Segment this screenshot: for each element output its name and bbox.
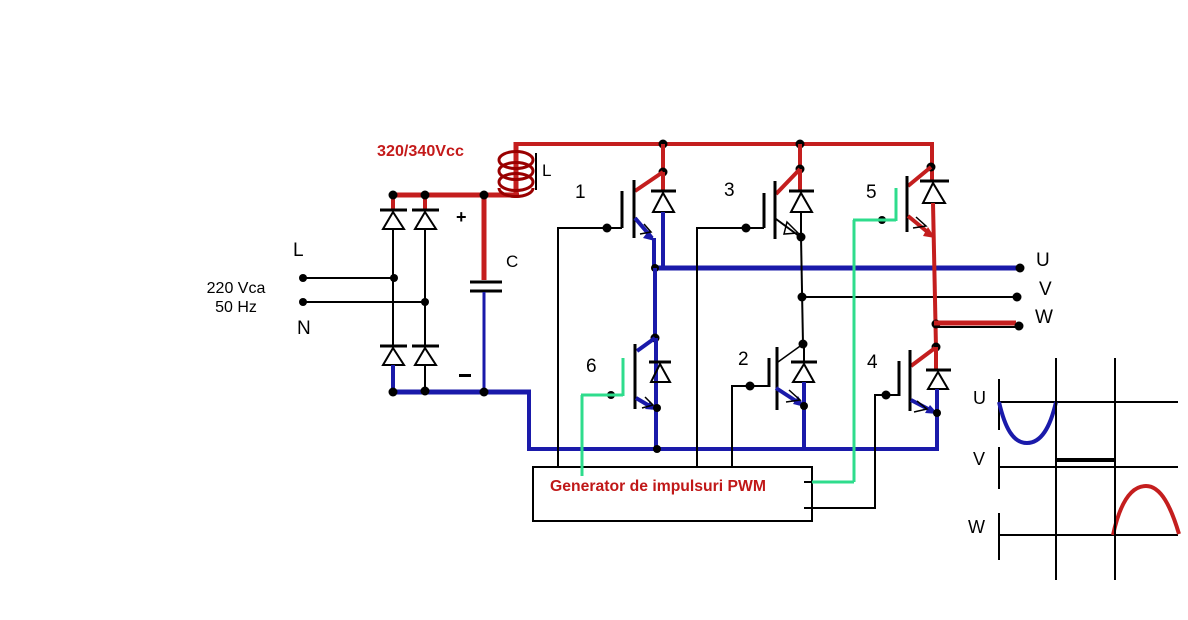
transistor Q2 gate bar	[768, 358, 771, 387]
wire Q4 gate elbow to PWM box (black)	[804, 507, 876, 509]
waveform U negative half-sine (blue)	[999, 402, 1056, 443]
svg-text:L: L	[542, 161, 551, 180]
svg-text:1: 1	[575, 182, 586, 203]
wire capacitor to - rail (blue)	[483, 292, 486, 394]
arrow Q2 emitter (blue)	[793, 396, 805, 407]
axis W waveform horizontal	[998, 534, 1178, 536]
wire Q6 gate lead (green)	[581, 394, 623, 397]
wire T1 collector diagonal (red)	[635, 172, 663, 191]
arrow Q5 emitter original (black open)	[913, 217, 926, 228]
wire - rail elbow down (blue)	[527, 390, 531, 451]
wire U bus down to Q6 (blue)	[653, 268, 657, 338]
wire bridge right leg	[424, 229, 426, 346]
axis W waveform vertical	[998, 513, 1000, 560]
wire D8 to - bus (blue)	[802, 382, 806, 450]
svg-text:5: 5	[866, 182, 877, 203]
diode D9 (freewheel of Q5)	[920, 181, 949, 203]
node Q4 emitter junction	[933, 409, 941, 417]
node N terminal	[299, 298, 307, 306]
node U output terminal	[1016, 264, 1025, 273]
wire Q3 emitter diagonal (black)	[776, 219, 799, 236]
node W output terminal	[1015, 322, 1024, 331]
wire W phase vertical (red)	[933, 203, 936, 348]
wire Q6 gate to PWM box (green)	[581, 395, 584, 476]
wire U phase bus (blue)	[653, 266, 1020, 271]
svg-text:Generator de impulsuri PWM: Generator de impulsuri PWM	[550, 478, 766, 495]
wire D7 to V node (black)	[800, 212, 802, 238]
wire - bus bottom (blue)	[527, 447, 939, 451]
svg-text:2: 2	[738, 349, 749, 370]
waveform W positive half-sine (red)	[1113, 486, 1179, 535]
svg-text:6: 6	[586, 356, 597, 377]
arrow Q4 emitter (blue)	[925, 405, 938, 414]
axis U waveform vertical	[998, 379, 1000, 430]
transistor Q2 body bar	[776, 347, 779, 410]
waveform V zero segment (black thick)	[1056, 458, 1115, 462]
wire Q4 emitter diagonal (blue)	[911, 400, 932, 411]
svg-text:320/340Vcc: 320/340Vcc	[377, 143, 464, 160]
node Q2 collector	[799, 340, 808, 349]
grid line waveform t1	[1055, 358, 1057, 580]
wire T5 collector diagonal (red)	[908, 167, 931, 186]
node bridge + right	[421, 191, 430, 200]
wire bridge left leg to - rail (blue)	[391, 365, 395, 393]
node Q3 emitter junction	[797, 233, 806, 242]
wire Q4 diode feed (red)	[934, 347, 938, 370]
diode D2 (bridge top-right)	[412, 210, 439, 229]
node N-bridge junction	[421, 298, 429, 306]
diode D5 (freewheel of Q1)	[651, 191, 676, 212]
wire T1 diode feed (red)	[661, 172, 665, 191]
node bridge + left	[389, 191, 398, 200]
arrow Q5 emitter (red)	[923, 227, 935, 238]
axis U waveform horizontal	[998, 401, 1178, 403]
wire T3 diode feed (red)	[798, 169, 802, 191]
arrow Q6 emitter original (black open)	[642, 397, 653, 408]
diode D3 (bridge bottom-left)	[380, 346, 407, 365]
wire PWM output stub (black, under green)	[804, 481, 813, 483]
wire - rail horizontal (blue)	[391, 390, 531, 395]
wire Q2 emitter diagonal (blue)	[776, 388, 799, 403]
wire V phase output (black)	[802, 296, 1017, 298]
node - rail bridge right leg	[421, 387, 430, 396]
wire Q4 collector diagonal (red)	[911, 348, 935, 366]
wire Q1 gate lead	[557, 227, 622, 229]
svg-text:V: V	[973, 449, 985, 469]
svg-text:C: C	[506, 252, 518, 271]
capacitor C	[470, 282, 502, 291]
node V output tap	[798, 293, 807, 302]
svg-text:4: 4	[867, 352, 878, 373]
wire Q5 emitter diagonal (red)	[908, 216, 930, 234]
PWM generator box U1	[533, 467, 812, 521]
node U bus / T1 junction	[651, 264, 659, 272]
inductor side tick	[535, 153, 537, 190]
transistor Q6 gate bar (green)	[622, 358, 625, 396]
transistor Q3 gate bar	[763, 193, 766, 228]
svg-text:3: 3	[724, 180, 735, 201]
grid line waveform t2	[1114, 358, 1116, 580]
node Q5 gate wire	[878, 216, 886, 224]
node Q4 gate wire	[882, 391, 891, 400]
transistor Q3 body bar	[774, 181, 777, 239]
node L terminal	[299, 274, 307, 282]
node Q1 gate wire	[603, 224, 612, 233]
label - polarity	[459, 374, 471, 377]
wire D5 to U bus (blue)	[661, 212, 665, 268]
transistor Q1 body bar	[633, 180, 636, 238]
axis V waveform vertical	[998, 447, 1000, 489]
wire Q5 gate to PWM box (green)	[853, 220, 856, 482]
svg-text:50 Hz: 50 Hz	[215, 299, 257, 316]
arrow Q1 emitter original (black open)	[640, 224, 651, 234]
node L-bridge junction	[390, 274, 398, 282]
node + bus tap T1	[659, 140, 668, 149]
wire Q3 gate to PWM box	[696, 227, 698, 467]
wire Q1 emitter to U bus (blue)	[652, 238, 656, 269]
wire Q4 gate lead	[874, 394, 899, 396]
wire Q5 gate green elbow to PWM box	[812, 481, 854, 484]
wire DC + bus top (red)	[514, 142, 934, 146]
arrow Q1 emitter (blue)	[643, 230, 655, 241]
transistor Q4 gate bar	[898, 361, 901, 396]
svg-text:N: N	[297, 318, 311, 339]
wire Q6 collector-emitter vertical (blue)	[654, 338, 658, 450]
wire + bus stub to T3 (red)	[798, 144, 802, 169]
node Q6 gate wire	[607, 391, 615, 399]
node Q6 collector	[651, 334, 660, 343]
node + bus tap T3	[796, 140, 805, 149]
wire Q1 emitter diagonal (blue)	[635, 218, 652, 238]
node - rail left	[389, 388, 398, 397]
wire bridge right leg to - rail	[424, 365, 426, 391]
svg-text:W: W	[1035, 307, 1053, 328]
transistor Q5 gate bar (green)	[895, 188, 898, 221]
node Q2 gate wire	[746, 382, 755, 391]
svg-text:U: U	[973, 388, 986, 408]
wire Q4 gate down (black)	[874, 395, 876, 509]
wire Q2 gate to PWM box	[731, 386, 733, 467]
node Q4 collector	[932, 343, 941, 352]
node W output tap	[932, 320, 941, 329]
node V output terminal	[1013, 293, 1022, 302]
inductor L feed wire (red vertical)	[514, 142, 519, 198]
svg-text:U: U	[1036, 250, 1050, 271]
wire + rail to capacitor (red)	[482, 193, 487, 280]
transistor Q4 body bar	[909, 350, 912, 411]
node T1 collector	[659, 168, 668, 177]
wire Q6 emitter diagonal (blue)	[636, 398, 653, 408]
wire Q2 collector diagonal (black)	[778, 344, 803, 362]
wire red stub to diode D1	[391, 195, 395, 210]
inductor L coil	[499, 152, 533, 197]
node Q6 to - bus	[653, 445, 661, 453]
wire Q2 diode feed (black)	[803, 344, 805, 362]
wire Q5 gate lead (green)	[853, 219, 896, 222]
svg-text:V: V	[1039, 279, 1052, 300]
arrow Q6 emitter (blue)	[645, 401, 657, 410]
node T5 collector	[927, 163, 936, 172]
arrow Q3 emitter (black open)	[784, 222, 798, 234]
svg-text:W: W	[968, 517, 985, 537]
node Q3 gate wire	[742, 224, 751, 233]
wire Q3 gate lead	[696, 227, 764, 229]
arrow Q2 emitter original (black open)	[786, 390, 800, 402]
node Q6 emitter junction	[653, 404, 661, 412]
node T3 collector	[796, 165, 805, 174]
diode D6 (freewheel of Q6)	[649, 362, 671, 382]
wire L input	[302, 277, 394, 279]
wire Q6 collector diagonal (blue)	[637, 338, 655, 351]
svg-text:+: +	[456, 207, 467, 227]
svg-text:L: L	[293, 240, 304, 261]
wire + bus corner down (red)	[930, 142, 934, 181]
wire W phase output (red)	[934, 321, 1016, 326]
node Q2 emitter junction	[800, 402, 808, 410]
diode D7 (freewheel of Q3)	[789, 191, 814, 212]
wire rectifier + rail (red)	[391, 193, 519, 198]
wire V phase vertical (black)	[801, 237, 803, 344]
node + rail / capacitor tap	[480, 191, 489, 200]
svg-text:220 Vca: 220 Vca	[207, 280, 266, 297]
diode D8 (freewheel of Q2)	[791, 362, 817, 382]
axis V waveform horizontal	[998, 466, 1178, 468]
wire Q1 gate to PWM box	[557, 227, 559, 467]
diode D1 (bridge top-left)	[380, 210, 407, 229]
wire + bus stub to T1 (red)	[661, 144, 665, 172]
wire D10 to - bus (blue)	[935, 389, 939, 451]
wire T3 collector diagonal (red)	[776, 169, 800, 194]
node - rail capacitor	[480, 388, 489, 397]
wire bridge left leg	[392, 229, 394, 346]
arrow Q4 emitter original (black open)	[914, 401, 927, 412]
transistor Q6 body bar	[634, 344, 637, 409]
wire red stub to diode D2	[423, 195, 427, 210]
diode D10 (freewheel of Q4)	[926, 370, 951, 389]
wire W phase output underlay (black)	[935, 326, 1019, 328]
diode D4 (bridge bottom-right)	[412, 346, 439, 365]
transistor Q5 body bar	[906, 176, 909, 232]
wire N input	[302, 301, 425, 303]
transistor Q1 gate bar	[621, 191, 624, 228]
wire Q2 gate lead	[731, 385, 769, 387]
